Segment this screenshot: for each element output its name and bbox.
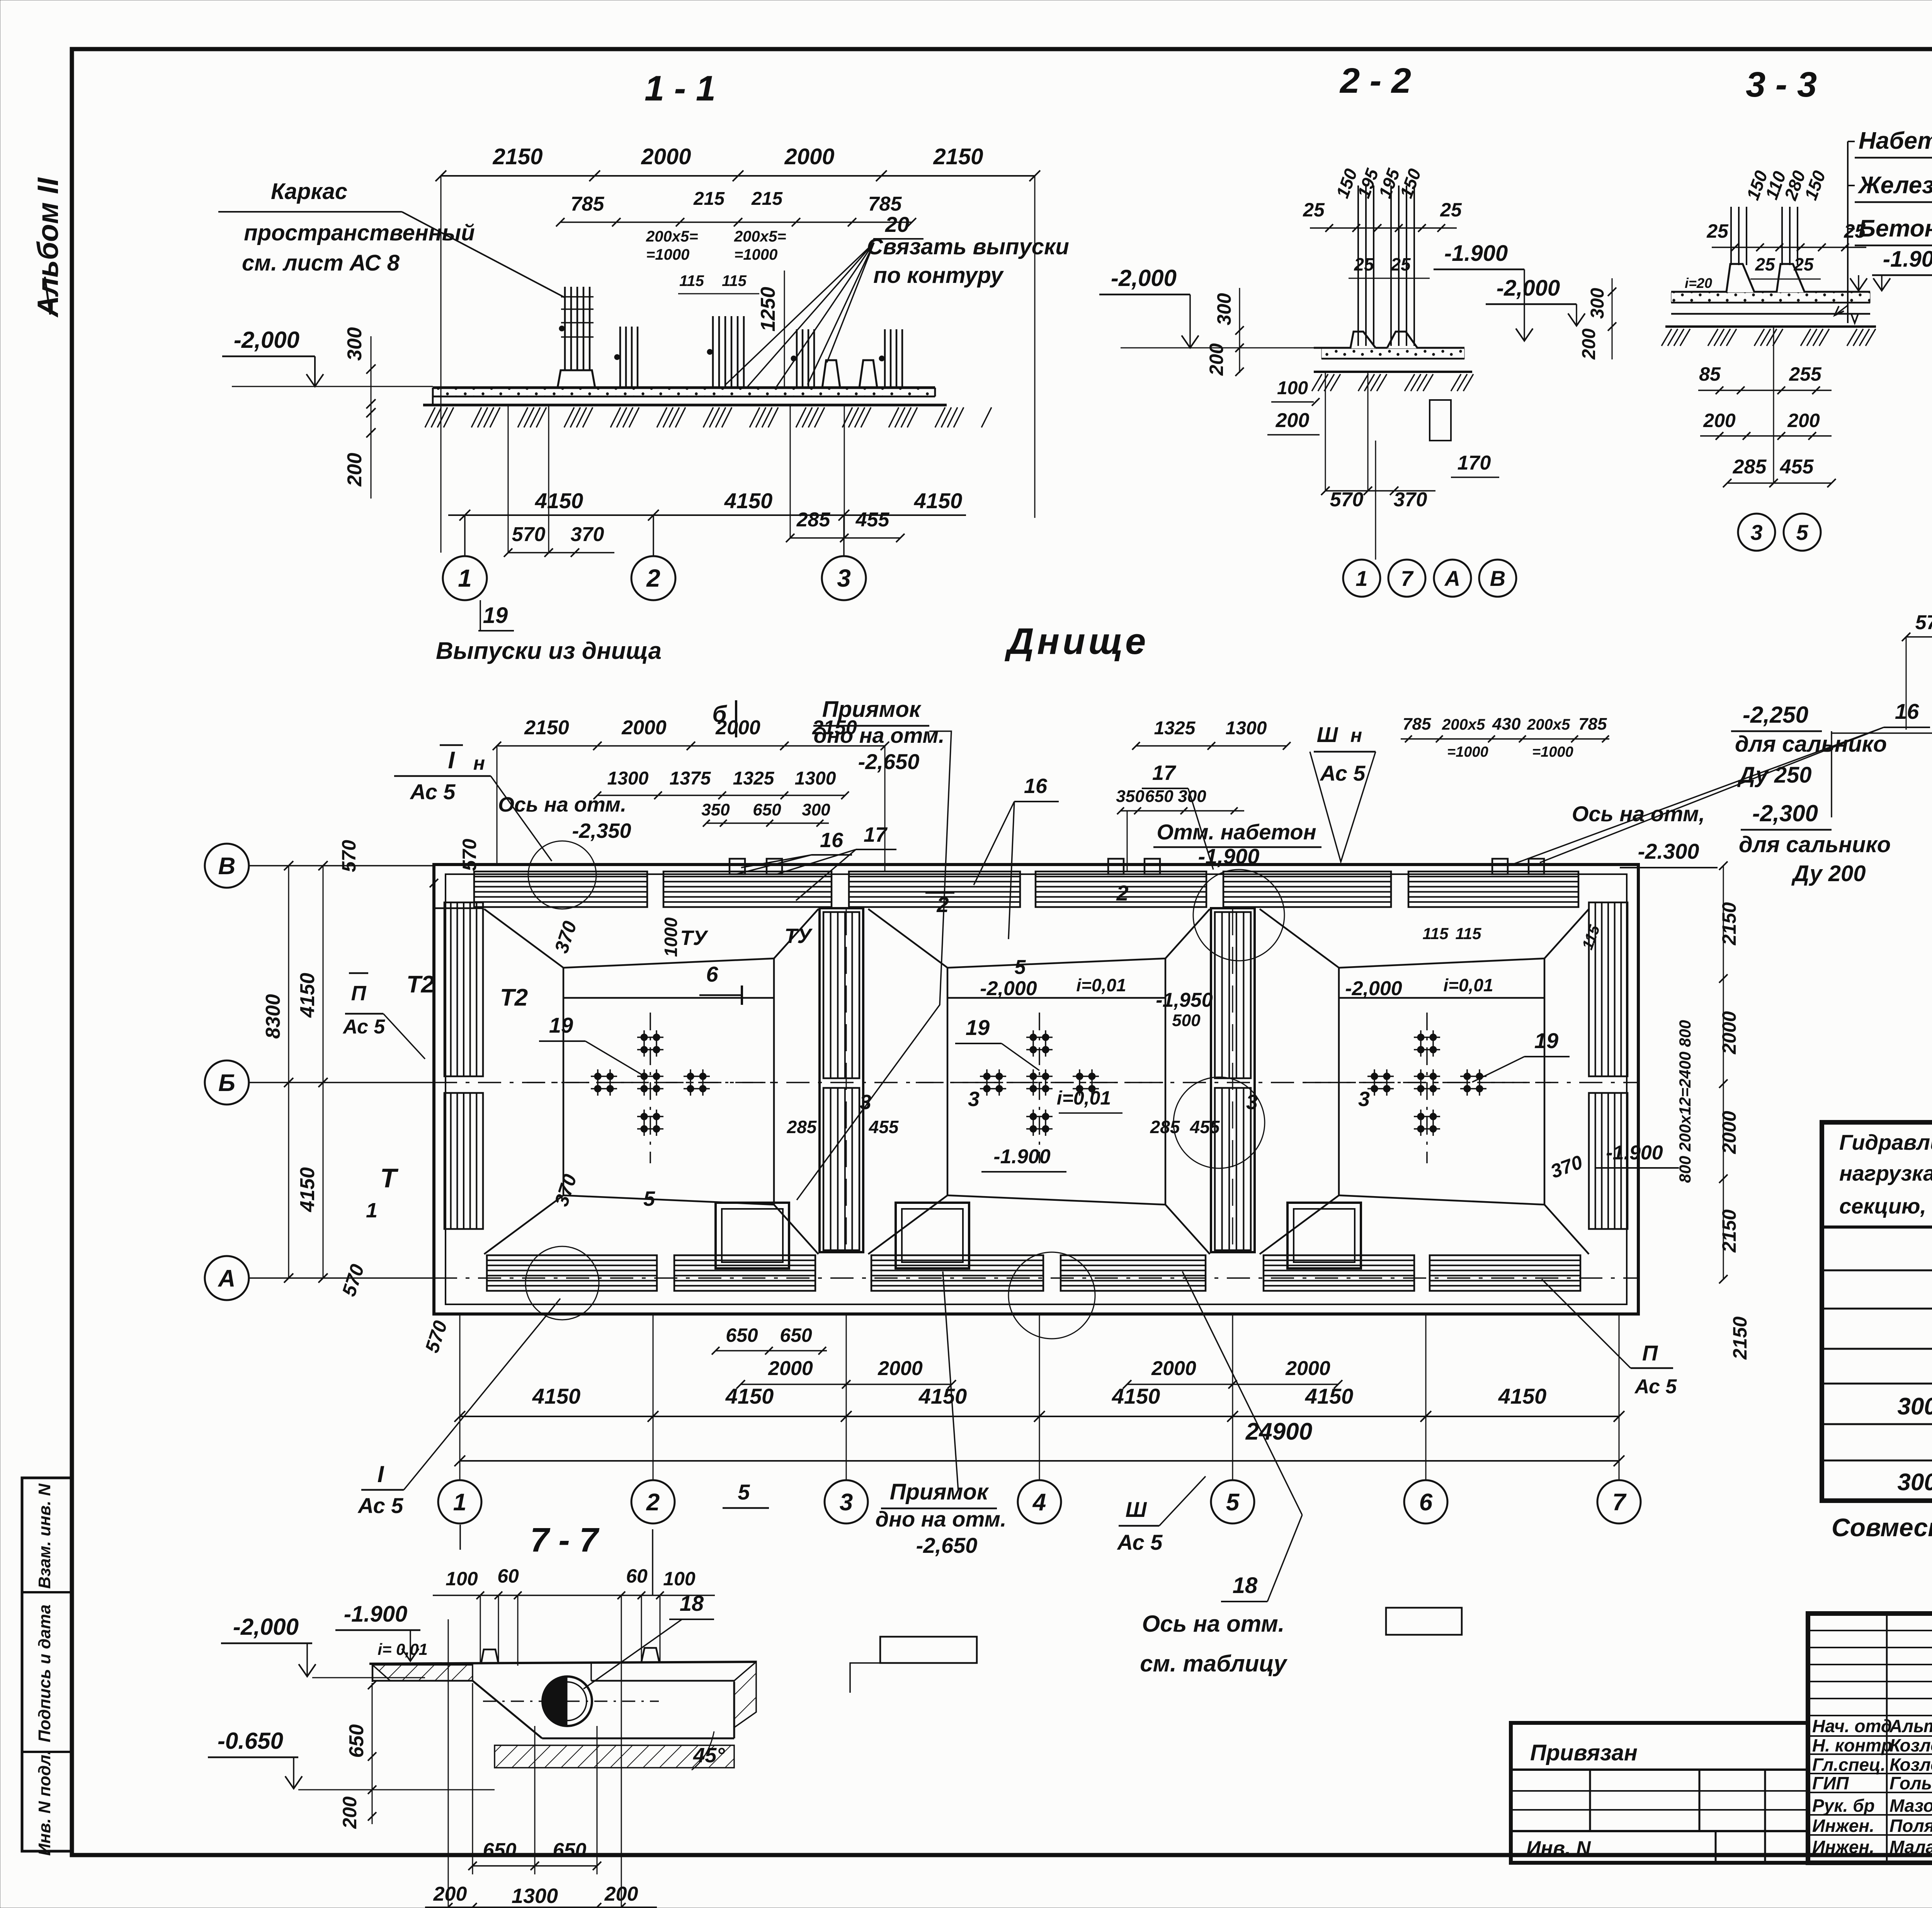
svg-text:дно на отм.: дно на отм. bbox=[876, 1507, 1007, 1531]
svg-text:-2,300: -2,300 bbox=[1752, 800, 1818, 826]
svg-text:В: В bbox=[218, 853, 236, 880]
svg-text:1325: 1325 bbox=[733, 768, 775, 789]
axis circle 3 (section 1-1) bbox=[843, 515, 845, 556]
svg-text:Н. контр: Н. контр bbox=[1812, 1735, 1892, 1755]
plan right vertical dims bbox=[1723, 866, 1724, 1279]
svg-text:16: 16 bbox=[820, 829, 844, 852]
svg-text:300: 300 bbox=[1587, 288, 1608, 319]
svg-text:200: 200 bbox=[339, 1796, 361, 1829]
svg-text:19: 19 bbox=[483, 603, 508, 628]
pit walls (7-7) bbox=[473, 1681, 542, 1738]
svg-text:350: 350 bbox=[701, 800, 730, 819]
section 1-1 top dimension row bbox=[441, 175, 1035, 177]
svg-text:650: 650 bbox=[553, 1839, 587, 1862]
svg-text:6: 6 bbox=[706, 962, 718, 986]
svg-text:П: П bbox=[351, 982, 367, 1005]
svg-text:4150: 4150 bbox=[918, 1384, 967, 1408]
svg-text:215: 215 bbox=[751, 189, 783, 209]
svg-text:Ас 5: Ас 5 bbox=[1117, 1530, 1163, 1554]
title block left grid bbox=[1886, 1614, 1888, 1863]
svg-text:200х5: 200х5 bbox=[1442, 716, 1485, 733]
svg-text:570: 570 bbox=[338, 840, 360, 872]
svg-text:Ас 5: Ас 5 bbox=[1634, 1375, 1677, 1398]
svg-text:Отм. набетон: Отм. набетон bbox=[1156, 820, 1316, 844]
svg-text:4150: 4150 bbox=[1112, 1384, 1160, 1408]
svg-text:455: 455 bbox=[869, 1117, 899, 1137]
svg-text:350: 350 bbox=[1116, 787, 1145, 806]
svg-text:Приямок: Приямок bbox=[822, 697, 922, 722]
svg-text:А: А bbox=[218, 1265, 236, 1292]
svg-text:285: 285 bbox=[787, 1117, 817, 1137]
left margin stamp boxes bbox=[22, 1478, 71, 1851]
svg-text:300, 500, 750: 300, 500, 750 bbox=[1897, 1393, 1932, 1420]
svg-text:1: 1 bbox=[366, 1199, 378, 1222]
svg-text:18: 18 bbox=[680, 1591, 704, 1615]
svg-text:4150: 4150 bbox=[296, 1167, 319, 1212]
svg-text:650: 650 bbox=[780, 1324, 812, 1346]
svg-text:4150: 4150 bbox=[1305, 1384, 1354, 1408]
svg-text:300: 300 bbox=[344, 327, 366, 361]
svg-text:2000: 2000 bbox=[768, 1357, 813, 1380]
table grid bbox=[1822, 1122, 1932, 1501]
svg-text:2150: 2150 bbox=[1718, 902, 1740, 945]
svg-text:2150: 2150 bbox=[1718, 1209, 1740, 1253]
svg-text:=1000: =1000 bbox=[1447, 744, 1488, 760]
svg-text:650: 650 bbox=[726, 1324, 758, 1346]
svg-text:24900: 24900 bbox=[1245, 1418, 1312, 1445]
svg-text:7: 7 bbox=[1401, 566, 1414, 591]
svg-text:200х5=: 200х5= bbox=[646, 228, 698, 245]
svg-text:100: 100 bbox=[1277, 378, 1308, 398]
svg-text:1250: 1250 bbox=[757, 287, 779, 332]
svg-text:-2,650: -2,650 bbox=[916, 1533, 978, 1557]
plan rebar outlet clusters (pos.19) bbox=[650, 1013, 651, 1163]
svg-text:300, 500, 750: 300, 500, 750 bbox=[1897, 1469, 1932, 1496]
svg-text:2: 2 bbox=[646, 564, 660, 592]
svg-text:4150: 4150 bbox=[535, 488, 583, 513]
svg-text:-1.900: -1.900 bbox=[1606, 1142, 1663, 1164]
section 1-1 slab bbox=[433, 386, 935, 389]
svg-text:285: 285 bbox=[796, 509, 831, 531]
svg-text:-1.900: -1.900 bbox=[1883, 247, 1932, 272]
svg-text:785: 785 bbox=[571, 193, 605, 215]
svg-text:170: 170 bbox=[1458, 452, 1491, 474]
svg-text:455: 455 bbox=[1780, 456, 1814, 478]
svg-text:115: 115 bbox=[722, 272, 747, 289]
svg-text:н: н bbox=[1350, 725, 1362, 746]
svg-text:100: 100 bbox=[446, 1568, 478, 1590]
svg-text:2150: 2150 bbox=[524, 717, 569, 739]
svg-text:-2,000: -2,000 bbox=[1111, 265, 1177, 291]
svg-text:4150: 4150 bbox=[725, 1384, 774, 1408]
svg-text:5: 5 bbox=[1226, 1489, 1240, 1516]
svg-text:3: 3 bbox=[840, 1489, 853, 1516]
svg-text:2000: 2000 bbox=[1151, 1357, 1196, 1380]
svg-text:2000: 2000 bbox=[1718, 1111, 1740, 1154]
axis circle 2 (section 1-1) bbox=[653, 515, 654, 556]
svg-text:см. лист АС 8: см. лист АС 8 bbox=[242, 250, 400, 276]
svg-text:430: 430 bbox=[1492, 715, 1521, 734]
svg-text:б: б bbox=[712, 701, 727, 727]
svg-text:-2,650: -2,650 bbox=[858, 749, 920, 774]
svg-text:ТУ: ТУ bbox=[680, 926, 708, 950]
svg-text:Т: Т bbox=[380, 1163, 399, 1193]
svg-text:-2,000: -2,000 bbox=[1345, 977, 1402, 1000]
svg-text:200х5=: 200х5= bbox=[734, 228, 786, 245]
svg-text:16: 16 bbox=[1024, 774, 1048, 798]
svg-text:1325: 1325 bbox=[1154, 718, 1196, 739]
svg-text:Ас 5: Ас 5 bbox=[357, 1493, 404, 1518]
svg-text:3: 3 bbox=[968, 1088, 980, 1111]
svg-text:Козловичер: Козловичер bbox=[1889, 1755, 1932, 1775]
svg-text:7 - 7: 7 - 7 bbox=[530, 1521, 600, 1559]
svg-text:1300: 1300 bbox=[795, 768, 836, 789]
svg-text:19: 19 bbox=[549, 1013, 573, 1037]
svg-text:Связать выпуски: Связать выпуски bbox=[867, 234, 1069, 259]
svg-text:-1.900: -1.900 bbox=[344, 1602, 407, 1627]
svg-text:1: 1 bbox=[458, 564, 472, 592]
svg-text:2000: 2000 bbox=[878, 1357, 923, 1380]
privyazan extension bbox=[1511, 1723, 1808, 1863]
svg-text:Ш: Ш bbox=[1126, 1497, 1147, 1522]
svg-text:5: 5 bbox=[643, 1187, 655, 1210]
svg-text:Железобетонное днище h= 200: Железобетонное днище h= 200 bbox=[1857, 172, 1932, 199]
svg-text:570: 570 bbox=[1915, 611, 1932, 634]
svg-text:5: 5 bbox=[1015, 956, 1026, 979]
svg-text:-1,900: -1,900 bbox=[1198, 844, 1260, 868]
svg-text:785: 785 bbox=[1578, 715, 1607, 734]
svg-text:300: 300 bbox=[802, 800, 830, 819]
svg-text:Т2: Т2 bbox=[406, 971, 434, 998]
svg-text:Каркас: Каркас bbox=[271, 179, 347, 204]
plan left wall mesh strips bbox=[444, 902, 483, 1076]
svg-text:ГИП: ГИП bbox=[1812, 1773, 1849, 1793]
svg-text:3: 3 bbox=[1750, 520, 1762, 545]
svg-text:-2,000: -2,000 bbox=[234, 327, 299, 353]
svg-text:285: 285 bbox=[1150, 1117, 1180, 1137]
svg-text:255: 255 bbox=[1789, 363, 1822, 385]
svg-text:i=0,01: i=0,01 bbox=[1443, 975, 1493, 995]
svg-text:370: 370 bbox=[571, 523, 604, 546]
svg-text:Ду 200: Ду 200 bbox=[1791, 861, 1866, 886]
svg-text:-2.300: -2.300 bbox=[1638, 839, 1699, 863]
svg-text:Полякова: Полякова bbox=[1889, 1816, 1932, 1836]
leader bracket for notes bbox=[1847, 141, 1849, 323]
svg-text:Привязан: Привязан bbox=[1530, 1740, 1638, 1765]
svg-text:650: 650 bbox=[345, 1724, 368, 1758]
title block outer bbox=[1808, 1614, 1932, 1863]
svg-text:1 - 1: 1 - 1 bbox=[645, 69, 716, 108]
svg-text:1300: 1300 bbox=[1226, 718, 1267, 739]
svg-text:650: 650 bbox=[1145, 787, 1173, 806]
svg-text:Альтшуллер: Альтшуллер bbox=[1889, 1716, 1932, 1736]
svg-text:-1.900: -1.900 bbox=[993, 1145, 1051, 1168]
svg-text:570: 570 bbox=[459, 839, 480, 871]
svg-text:i=0,01: i=0,01 bbox=[1057, 1087, 1111, 1109]
axis circles 3 5 (section 3-3) bbox=[1738, 514, 1775, 551]
svg-text:-1,950: -1,950 bbox=[1156, 989, 1213, 1011]
svg-text:Набетонка по уклону бетон М150: Набетонка по уклону бетон М150 bbox=[1859, 128, 1932, 154]
svg-text:-2,000: -2,000 bbox=[1497, 276, 1560, 301]
svg-text:Инжен.: Инжен. bbox=[1812, 1837, 1874, 1857]
svg-text:Днище: Днище bbox=[1005, 621, 1149, 662]
svg-text:2150: 2150 bbox=[1729, 1316, 1751, 1360]
svg-text:Б: Б bbox=[218, 1070, 235, 1096]
plan partition walls (axes 3 and 5) bbox=[820, 908, 863, 1252]
section 1-1 rebar groups bbox=[619, 327, 621, 388]
svg-text:П: П bbox=[1642, 1341, 1658, 1365]
svg-text:5: 5 bbox=[1796, 520, 1808, 545]
svg-text:115: 115 bbox=[679, 272, 704, 289]
svg-text:18: 18 bbox=[1233, 1573, 1258, 1598]
axis circle 1 (section 1-1) bbox=[464, 515, 466, 556]
svg-text:Нач. отд: Нач. отд bbox=[1812, 1716, 1892, 1736]
svg-text:2150: 2150 bbox=[492, 144, 543, 169]
svg-text:570: 570 bbox=[1330, 488, 1364, 511]
svg-text:Ас 5: Ас 5 bbox=[410, 780, 456, 804]
svg-text:Инжен.: Инжен. bbox=[1812, 1816, 1874, 1836]
axis line B (middle) bbox=[248, 1082, 434, 1083]
svg-text:7: 7 bbox=[1612, 1489, 1627, 1516]
axis leader lines above 7-7 bbox=[459, 1525, 461, 1550]
svg-text:Взам. инв. N: Взам. инв. N bbox=[35, 1483, 54, 1589]
svg-text:2150: 2150 bbox=[933, 144, 983, 169]
svg-text:19: 19 bbox=[1534, 1028, 1558, 1053]
svg-text:-1.900: -1.900 bbox=[1444, 241, 1508, 266]
svg-text:Гл.спец.: Гл.спец. bbox=[1812, 1755, 1886, 1775]
pipeline axis arrows into 6-6 bbox=[1832, 732, 1932, 734]
section 7-7 body bbox=[369, 1662, 756, 1664]
svg-text:200: 200 bbox=[1787, 410, 1820, 431]
plan top dim rows bbox=[497, 745, 885, 747]
svg-text:455: 455 bbox=[1190, 1117, 1220, 1137]
svg-text:2: 2 bbox=[1116, 881, 1128, 905]
pipe (7-7) bbox=[543, 1677, 592, 1726]
detail circles on plan bbox=[528, 841, 596, 909]
section 1-1 bottom dims bbox=[508, 552, 614, 553]
svg-text:-2,350: -2,350 bbox=[572, 819, 631, 843]
svg-text:6: 6 bbox=[1419, 1489, 1433, 1516]
svg-text:3: 3 bbox=[1246, 1091, 1258, 1114]
svg-text:-0.650: -0.650 bbox=[218, 1728, 283, 1754]
svg-text:4150: 4150 bbox=[914, 488, 963, 513]
svg-text:н: н bbox=[473, 752, 485, 774]
svg-text:800 200х12=2400 800: 800 200х12=2400 800 bbox=[1676, 1020, 1694, 1183]
svg-text:Т2: Т2 bbox=[500, 984, 528, 1011]
svg-text:60: 60 bbox=[626, 1565, 648, 1587]
svg-text:2000: 2000 bbox=[1285, 1357, 1330, 1380]
svg-text:20: 20 bbox=[885, 212, 909, 237]
axis circles 1 7 A B (section 2-2) bbox=[1343, 560, 1380, 597]
svg-text:200: 200 bbox=[1276, 409, 1310, 432]
svg-text:2000: 2000 bbox=[1718, 1011, 1740, 1054]
svg-text:650: 650 bbox=[753, 800, 781, 819]
plan top mesh strips bbox=[474, 871, 647, 907]
svg-text:по контуру: по контуру bbox=[873, 263, 1004, 288]
svg-text:i= 0,01: i= 0,01 bbox=[378, 1640, 428, 1658]
svg-text:370: 370 bbox=[1394, 488, 1427, 511]
svg-text:285: 285 bbox=[1733, 456, 1767, 478]
svg-text:200: 200 bbox=[433, 1883, 467, 1905]
svg-text:1375: 1375 bbox=[670, 768, 711, 789]
svg-text:200: 200 bbox=[1579, 328, 1599, 360]
svg-text:2000: 2000 bbox=[641, 144, 691, 169]
svg-text:25: 25 bbox=[1303, 199, 1325, 221]
svg-text:Ас 5: Ас 5 bbox=[1320, 761, 1366, 785]
svg-text:пространственный: пространственный bbox=[244, 220, 475, 245]
svg-text:1000: 1000 bbox=[661, 917, 681, 957]
section 1-1 axis dim row 4150 x3 bbox=[448, 514, 966, 516]
svg-text:Рук. бр: Рук. бр bbox=[1812, 1796, 1875, 1816]
svg-text:Гольдина: Гольдина bbox=[1889, 1773, 1932, 1793]
svg-text:Ось на отм.: Ось на отм. bbox=[1142, 1611, 1285, 1637]
svg-text:25: 25 bbox=[1440, 199, 1462, 221]
svg-text:17: 17 bbox=[1152, 761, 1177, 785]
plan pits (priyamok) bbox=[716, 1203, 789, 1268]
section 1-1 second dim row bbox=[560, 221, 912, 223]
svg-text:I: I bbox=[378, 1461, 384, 1487]
svg-text:Ш: Ш bbox=[1317, 722, 1338, 747]
svg-text:2 - 2: 2 - 2 bbox=[1339, 61, 1411, 100]
svg-text:455: 455 bbox=[855, 509, 890, 531]
svg-text:=1000: =1000 bbox=[646, 246, 689, 263]
svg-text:4150: 4150 bbox=[532, 1384, 581, 1408]
svg-text:Малахова: Малахова bbox=[1889, 1837, 1932, 1857]
svg-text:200: 200 bbox=[1206, 343, 1227, 376]
svg-text:115: 115 bbox=[1456, 924, 1482, 943]
svg-text:Совместно с данным см. л: Совместно с данным см. л.л. АС 4... 6 bbox=[1832, 1513, 1932, 1542]
svg-text:В: В bbox=[1490, 566, 1505, 591]
plan left vertical dims bbox=[288, 866, 289, 1278]
svg-text:А: А bbox=[1444, 566, 1460, 591]
svg-text:200: 200 bbox=[344, 453, 366, 487]
svg-text:200: 200 bbox=[1703, 410, 1736, 431]
axis line V bbox=[248, 865, 434, 866]
svg-text:300: 300 bbox=[1213, 293, 1235, 325]
svg-text:1: 1 bbox=[453, 1489, 466, 1516]
svg-text:3: 3 bbox=[860, 1091, 871, 1114]
svg-text:4: 4 bbox=[1032, 1489, 1046, 1516]
svg-text:Ас 5: Ас 5 bbox=[342, 1016, 386, 1038]
svg-text:3 - 3: 3 - 3 bbox=[1746, 65, 1817, 104]
svg-text:4150: 4150 bbox=[1498, 1384, 1547, 1408]
svg-text:115: 115 bbox=[1423, 924, 1449, 943]
plan right wall mesh strips bbox=[1589, 902, 1628, 1076]
svg-text:650: 650 bbox=[483, 1839, 517, 1862]
section 2-2 rebars bbox=[1357, 186, 1359, 346]
svg-text:570: 570 bbox=[512, 523, 546, 546]
svg-text:200: 200 bbox=[604, 1883, 638, 1905]
svg-text:Гидравлическая: Гидравлическая bbox=[1839, 1130, 1932, 1154]
svg-text:16: 16 bbox=[1895, 699, 1919, 723]
svg-text:I: I bbox=[448, 747, 455, 774]
svg-text:2000: 2000 bbox=[621, 717, 667, 739]
svg-text:1300: 1300 bbox=[512, 1884, 558, 1908]
plan vertical axis lines and bottom circles 1-7 bbox=[459, 1314, 461, 1479]
svg-text:см. таблицу: см. таблицу bbox=[1140, 1651, 1287, 1677]
svg-text:2: 2 bbox=[646, 1489, 660, 1516]
svg-text:4150: 4150 bbox=[724, 488, 773, 513]
svg-text:500: 500 bbox=[1172, 1011, 1201, 1030]
small empty frame with leader bbox=[880, 1637, 977, 1663]
svg-text:секцию, м3/час: секцию, м3/час bbox=[1839, 1194, 1932, 1218]
svg-text:=1000: =1000 bbox=[1532, 744, 1573, 760]
svg-text:25: 25 bbox=[1706, 220, 1729, 242]
svg-text:1: 1 bbox=[1355, 566, 1367, 591]
svg-text:Козловичер: Козловичер bbox=[1889, 1735, 1932, 1755]
svg-text:Инв. N подл.: Инв. N подл. bbox=[35, 1750, 54, 1856]
plan section interiors bbox=[484, 909, 563, 968]
svg-text:100: 100 bbox=[663, 1568, 696, 1590]
axis line A bbox=[248, 1277, 434, 1279]
svg-text:17: 17 bbox=[864, 823, 888, 846]
svg-text:19: 19 bbox=[966, 1015, 990, 1040]
svg-text:3: 3 bbox=[1358, 1088, 1370, 1111]
svg-text:i=0,01: i=0,01 bbox=[1076, 975, 1126, 995]
svg-text:Подпись и дата: Подпись и дата bbox=[35, 1605, 54, 1743]
plan bottom mesh strips bbox=[487, 1255, 657, 1291]
svg-text:785: 785 bbox=[1403, 715, 1431, 734]
svg-text:Ду 250: Ду 250 bbox=[1737, 763, 1811, 788]
svg-text:-2,250: -2,250 bbox=[1743, 702, 1808, 728]
svg-text:25: 25 bbox=[1390, 254, 1411, 274]
svg-text:-2,000: -2,000 bbox=[233, 1614, 299, 1640]
svg-text:Инв. N: Инв. N bbox=[1526, 1837, 1591, 1860]
svg-text:5: 5 bbox=[738, 1480, 750, 1504]
svg-text:60: 60 bbox=[497, 1565, 519, 1587]
svg-text:25: 25 bbox=[1755, 254, 1776, 274]
section 1-1 left column with rebar bbox=[558, 370, 595, 388]
svg-text:2000: 2000 bbox=[784, 144, 834, 169]
svg-text:ТУ: ТУ bbox=[784, 924, 813, 948]
svg-text:для сальнико: для сальнико bbox=[1739, 832, 1891, 857]
svg-text:=1000: =1000 bbox=[734, 246, 777, 263]
svg-text:1300: 1300 bbox=[607, 768, 649, 789]
svg-text:8300: 8300 bbox=[262, 994, 284, 1039]
svg-text:Бетонная подготовка h=100: Бетонная подготовка h=100 bbox=[1859, 215, 1932, 242]
plan outer walls bbox=[434, 865, 1638, 1314]
svg-text:3: 3 bbox=[837, 564, 851, 592]
svg-text:215: 215 bbox=[693, 189, 725, 209]
svg-text:2: 2 bbox=[936, 892, 949, 917]
svg-text:Мазо: Мазо bbox=[1889, 1796, 1932, 1816]
svg-text:нагрузка на: нагрузка на bbox=[1839, 1161, 1932, 1185]
svg-text:4150: 4150 bbox=[296, 973, 319, 1018]
svg-text:25: 25 bbox=[1354, 254, 1374, 274]
svg-text:200х5: 200х5 bbox=[1527, 716, 1570, 733]
svg-text:-2,000: -2,000 bbox=[980, 977, 1037, 1000]
svg-text:85: 85 bbox=[1699, 363, 1721, 385]
svg-text:Приямок: Приямок bbox=[890, 1479, 989, 1505]
svg-text:дно на отм.: дно на отм. bbox=[814, 723, 945, 747]
svg-text:Выпуски из днища: Выпуски из днища bbox=[436, 638, 662, 664]
section 2-2 footing bbox=[1321, 332, 1376, 348]
svg-text:i=20: i=20 bbox=[1685, 275, 1712, 291]
